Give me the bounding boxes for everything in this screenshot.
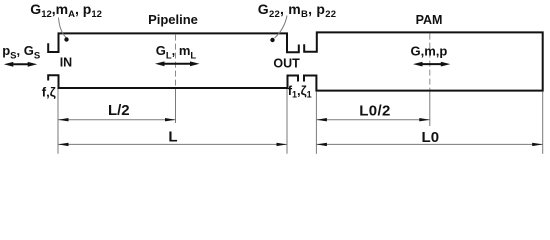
- svg-text:L0/2: L0/2: [359, 103, 391, 120]
- pipe P1 top wall with inlet connector hook: [48, 33, 299, 52]
- pipe P2 PAM outline with outlet connector: [304, 32, 543, 90]
- svg-text:Pipeline: Pipeline: [148, 12, 198, 27]
- dimension L0/2 line: [316, 119, 429, 121]
- dimension L/2 line: [58, 119, 176, 121]
- arrow pS GS: [4, 62, 37, 67]
- svg-text:OUT: OUT: [273, 57, 300, 71]
- extension line at x=316.4: [315, 92, 317, 154]
- measurement dot A: [64, 37, 68, 41]
- leader for G12 label: [59, 18, 67, 38]
- extension line at x=175.5: [175, 89, 177, 123]
- svg-text:L: L: [168, 129, 177, 146]
- extension line at x=287: [286, 89, 288, 154]
- svg-text:IN: IN: [60, 56, 72, 70]
- extension line at x=58: [57, 89, 59, 154]
- measurement dot B: [270, 38, 274, 42]
- dimension L line: [58, 143, 287, 145]
- svg-text:L0: L0: [422, 129, 440, 146]
- svg-text:f,ζ: f,ζ: [42, 85, 56, 100]
- pipe P1 bottom wall with inlet connector hook: [48, 75, 298, 88]
- extension line at x=542.7: [542, 92, 544, 154]
- dimension L0 line: [316, 143, 542, 145]
- centerline PAM dashed: [429, 34, 431, 90]
- centerline pipe1 dashed: [175, 35, 177, 87]
- svg-text:PAM: PAM: [416, 13, 443, 27]
- extension line at x=429.8: [429, 92, 431, 126]
- svg-text:L/2: L/2: [108, 102, 130, 119]
- arrow G m p: [413, 62, 450, 67]
- leader for G22 label: [275, 16, 288, 39]
- arrow GL mL: [155, 61, 200, 66]
- svg-text:G,m,p: G,m,p: [411, 44, 448, 59]
